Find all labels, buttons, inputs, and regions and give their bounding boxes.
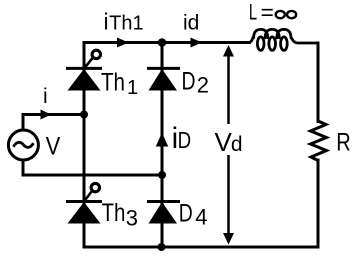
diode D2 [147, 68, 180, 90]
node junction dot source bottom [158, 171, 166, 179]
current arrow iTh1 [117, 38, 129, 48]
wire top rail [84, 41, 249, 44]
voltage arrow Vd [227, 52, 230, 238]
resistor R [311, 121, 327, 161]
wire bottom rail [84, 246, 318, 249]
wire right branch upper [317, 43, 320, 122]
svg-text:iTh1: iTh1 [104, 9, 144, 35]
svg-text:R: R [336, 129, 351, 157]
voltage source V [8, 130, 38, 160]
wire source bottom lead [23, 161, 162, 176]
thyristor Th3 [66, 183, 102, 223]
wire right branch lower [317, 160, 320, 247]
svg-text:L=: L= [249, 0, 274, 24]
svg-text:V: V [46, 133, 61, 161]
node junction dot bottom rail [158, 243, 166, 251]
svg-text:iD: iD [172, 122, 192, 155]
current arrow iD [156, 133, 168, 147]
wire left branch [83, 43, 86, 248]
svg-text:id: id [183, 12, 199, 35]
wire middle branch [161, 43, 164, 248]
inductor L [244, 29, 318, 50]
current arrow id [191, 38, 203, 48]
node junction dot top [158, 38, 167, 47]
thyristor Th1 [66, 50, 102, 90]
node junction dot source top [80, 111, 88, 119]
current arrow i [41, 110, 52, 120]
svg-text:D2: D2 [182, 67, 209, 97]
wire source top lead [23, 115, 84, 130]
svg-text:i: i [43, 85, 48, 108]
diode D4 [147, 202, 180, 224]
